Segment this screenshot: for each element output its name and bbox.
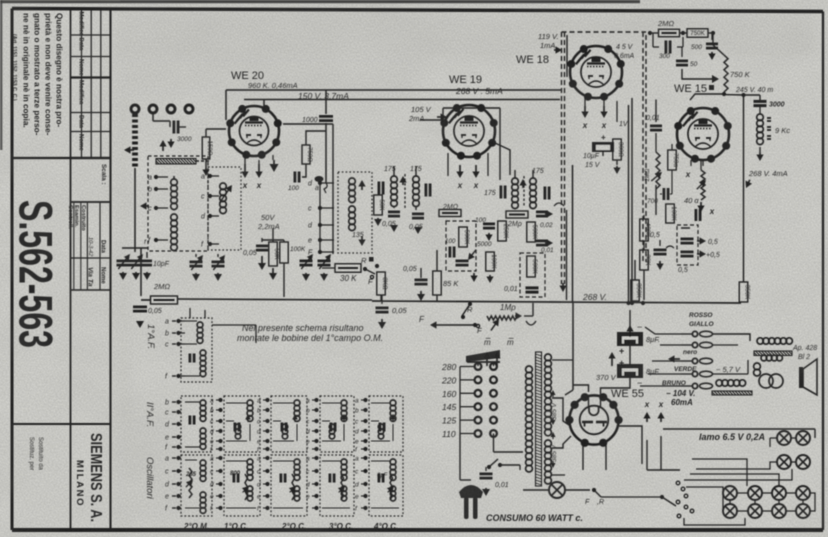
- svg-text:e: e: [210, 494, 214, 501]
- svg-text:e: e: [306, 494, 310, 501]
- svg-text:350K: 350K: [635, 283, 642, 298]
- svg-text:WE 18: WE 18: [516, 54, 549, 66]
- svg-text:300: 300: [659, 53, 670, 60]
- svg-text:8μF.: 8μF.: [646, 335, 660, 344]
- svg-text:(Art. 1151, 1152, 1153 C. C.): (Art. 1151, 1152, 1153 C. C.): [11, 34, 17, 101]
- svg-text:175: 175: [484, 190, 496, 197]
- svg-text:2MΩ: 2MΩ: [645, 168, 651, 181]
- svg-text:100: 100: [445, 238, 456, 245]
- svg-text:119 V.: 119 V.: [538, 32, 559, 41]
- svg-text:Modifica: Modifica: [77, 80, 83, 105]
- svg-text:−: −: [637, 322, 642, 332]
- svg-text:85 K: 85 K: [443, 279, 459, 288]
- svg-text:750K: 750K: [690, 30, 705, 37]
- svg-text:Questo disegno è nostra pr: Questo disegno è nostra pro-: [55, 13, 64, 127]
- svg-text:10pF: 10pF: [153, 261, 170, 268]
- svg-text:m̅: m̅: [484, 338, 491, 347]
- svg-text:3000: 3000: [177, 136, 192, 143]
- svg-text:500K: 500K: [463, 230, 470, 245]
- svg-text:800: 800: [230, 471, 241, 477]
- svg-text:2,2mA: 2,2mA: [257, 222, 280, 231]
- svg-text:x: x: [473, 181, 479, 190]
- svg-text:gnato o mostrato a terze perso: gnato o mostrato a terze perso-: [33, 13, 42, 136]
- svg-text:370 V: 370 V: [596, 373, 617, 382]
- svg-text:268 V. 4mA: 268 V. 4mA: [748, 169, 788, 178]
- svg-text:x: x: [644, 400, 650, 409]
- svg-text:R: R: [361, 256, 367, 265]
- svg-text:d: d: [210, 482, 214, 489]
- svg-text:Data: Data: [77, 115, 83, 129]
- svg-text:2°O.M.: 2°O.M.: [183, 522, 209, 531]
- svg-text:e: e: [257, 494, 261, 501]
- svg-text:lamo 6.5 V 0,2A: lamo 6.5 V 0,2A: [699, 432, 765, 442]
- svg-text:VERDE: VERDE: [674, 366, 697, 373]
- svg-text:Modifica: Modifica: [77, 12, 83, 37]
- svg-text:1mA: 1mA: [540, 41, 555, 50]
- svg-text:+0,5: +0,5: [706, 252, 720, 259]
- svg-text:x: x: [709, 207, 715, 216]
- svg-text:145: 145: [442, 402, 456, 412]
- svg-text:c: c: [165, 469, 169, 476]
- svg-text:a: a: [257, 456, 261, 463]
- svg-text:280: 280: [441, 362, 456, 372]
- svg-text:0,5: 0,5: [650, 232, 660, 239]
- svg-text:a: a: [165, 456, 169, 463]
- svg-text:d: d: [306, 482, 310, 489]
- svg-text:0,05: 0,05: [403, 266, 417, 273]
- svg-text:50K: 50K: [378, 199, 385, 211]
- svg-text:Ap. 428: Ap. 428: [792, 345, 817, 352]
- svg-text:MILANO: MILANO: [74, 460, 85, 507]
- svg-text:50V: 50V: [261, 213, 275, 222]
- svg-text:4°O.C.: 4°O.C.: [373, 522, 398, 531]
- svg-text:960 K. 0,46mA: 960 K. 0,46mA: [248, 81, 298, 90]
- svg-text:110: 110: [442, 429, 456, 439]
- svg-text:265: 265: [185, 472, 197, 478]
- svg-text:40 α: 40 α: [684, 196, 699, 205]
- svg-text:b: b: [210, 408, 214, 415]
- svg-text:Scala :: Scala :: [100, 164, 107, 185]
- svg-text:5000: 5000: [477, 241, 492, 248]
- svg-text:Sostituz. per: Sostituz. per: [28, 437, 34, 470]
- svg-text:100: 100: [288, 185, 299, 192]
- svg-text:− 104 V.: − 104 V.: [666, 389, 695, 398]
- svg-text:0,5: 0,5: [708, 239, 718, 246]
- svg-text:10-3-42: 10-3-42: [87, 237, 93, 257]
- svg-text:c: c: [148, 206, 152, 213]
- svg-text:2MΩ: 2MΩ: [657, 19, 674, 28]
- svg-text:a: a: [355, 456, 359, 463]
- svg-text:a: a: [165, 319, 169, 326]
- svg-text:+: +: [601, 133, 606, 142]
- svg-text:1V: 1V: [619, 121, 629, 128]
- svg-text:160: 160: [442, 389, 456, 399]
- svg-text:0,05: 0,05: [243, 250, 257, 257]
- svg-text:Controll.: Controll.: [67, 205, 73, 229]
- svg-text:b: b: [148, 187, 152, 194]
- svg-text:385 V: 385 V: [551, 444, 558, 462]
- svg-text:c: c: [165, 342, 169, 349]
- svg-text:montate le bobine del 1°ca: montate le bobine del 1°campo O.M.: [237, 333, 383, 343]
- svg-text:WE 19: WE 19: [449, 74, 482, 86]
- svg-text:WE 55: WE 55: [611, 388, 644, 400]
- svg-text:Oscillatori: Oscillatori: [144, 457, 155, 500]
- svg-text:175: 175: [532, 168, 544, 175]
- svg-text:8μF.: 8μF.: [646, 367, 660, 376]
- svg-text:1Mρ: 1Mρ: [500, 303, 516, 312]
- svg-text:268 V.: 268 V.: [582, 292, 607, 302]
- svg-text:0,01: 0,01: [504, 286, 518, 293]
- svg-text:245 V. 40 m: 245 V. 40 m: [735, 87, 773, 94]
- svg-text:d: d: [257, 482, 261, 489]
- svg-text:8KΩ: 8KΩ: [381, 277, 388, 290]
- svg-text:500: 500: [691, 44, 702, 51]
- svg-text:e: e: [306, 439, 310, 446]
- svg-text:750Ω: 750Ω: [306, 147, 313, 162]
- svg-text:a: a: [355, 398, 359, 405]
- svg-text:a: a: [210, 398, 214, 405]
- svg-text:750 K: 750 K: [730, 70, 751, 79]
- svg-text:a: a: [257, 398, 261, 405]
- svg-text:15 V: 15 V: [585, 162, 601, 169]
- svg-text:b: b: [165, 331, 169, 338]
- svg-text:x: x: [658, 400, 664, 409]
- svg-text:Nome: Nome: [100, 267, 106, 284]
- svg-text:100K: 100K: [290, 246, 306, 253]
- svg-text:1000: 1000: [302, 117, 318, 124]
- svg-text:prietà e non deve venire conse: prietà e non deve venire conse-: [44, 13, 53, 136]
- svg-text:e: e: [355, 439, 359, 446]
- svg-text:ROSSO: ROSSO: [689, 312, 712, 319]
- svg-text:a: a: [210, 456, 214, 463]
- svg-text:e: e: [308, 238, 312, 245]
- svg-text:220: 220: [441, 375, 456, 385]
- svg-text:x: x: [242, 181, 248, 190]
- svg-text:Nome: Nome: [77, 59, 83, 76]
- svg-text:ne nè in originale nè in: ne nè in originale nè in copia.: [22, 13, 31, 128]
- svg-text:+: +: [619, 346, 624, 356]
- svg-text:1°O.C.: 1°O.C.: [224, 522, 248, 531]
- svg-text:30 K: 30 K: [340, 274, 357, 283]
- svg-text:a: a: [148, 175, 152, 182]
- svg-text:b: b: [165, 400, 169, 407]
- svg-text:2°O.C.: 2°O.C.: [281, 522, 306, 531]
- svg-text:2Mρ: 2Mρ: [507, 221, 522, 228]
- svg-text:x: x: [256, 181, 262, 190]
- svg-text:700: 700: [647, 198, 658, 205]
- svg-text:a: a: [306, 398, 310, 405]
- svg-text:b: b: [257, 408, 261, 415]
- svg-text:c: c: [308, 206, 312, 213]
- svg-text:m̅: m̅: [507, 338, 514, 347]
- svg-text:2MΩ: 2MΩ: [153, 282, 170, 291]
- svg-text:268 V . 5mA: 268 V . 5mA: [455, 86, 503, 96]
- svg-text:6pF: 6pF: [377, 473, 388, 479]
- svg-text:125: 125: [442, 416, 456, 426]
- svg-text:d: d: [257, 429, 261, 436]
- svg-text:II°A.F.: II°A.F.: [144, 402, 155, 427]
- svg-text:Nome: Nome: [77, 134, 83, 151]
- svg-text:0,05: 0,05: [148, 308, 162, 315]
- svg-text:Sostituito da: Sostituito da: [37, 437, 43, 471]
- svg-text:,R: ,R: [597, 499, 604, 506]
- svg-text:3°O.C.: 3°O.C.: [329, 522, 353, 531]
- svg-text:a: a: [201, 174, 205, 181]
- svg-text:385 V: 385 V: [551, 402, 558, 420]
- svg-text:2mA: 2mA: [408, 114, 424, 123]
- svg-text:300Ω: 300Ω: [617, 142, 624, 157]
- svg-text:350K: 350K: [744, 285, 751, 300]
- svg-text:Data: Data: [100, 240, 106, 254]
- svg-text:500K: 500K: [531, 225, 538, 240]
- svg-text:0,5: 0,5: [678, 267, 688, 274]
- svg-text:c: c: [165, 410, 169, 417]
- svg-text:b: b: [355, 408, 359, 415]
- svg-text:CONSUMO 60 WATT c.: CONSUMO 60 WATT c.: [486, 513, 583, 523]
- svg-text:0,6mA: 0,6mA: [614, 53, 635, 60]
- svg-text:60mA: 60mA: [671, 398, 693, 407]
- svg-text:F: F: [585, 499, 590, 506]
- svg-text:d: d: [355, 482, 359, 489]
- svg-text:x: x: [601, 121, 607, 130]
- svg-text:Via Ta: Via Ta: [87, 267, 94, 287]
- svg-text:b: b: [306, 408, 310, 415]
- svg-text:a: a: [315, 185, 319, 192]
- svg-text:WE 15: WE 15: [674, 83, 707, 95]
- svg-text:1°A.F.: 1°A.F.: [145, 324, 156, 349]
- svg-text:e: e: [257, 439, 261, 446]
- svg-text:105 V: 105 V: [411, 105, 432, 114]
- svg-text:c: c: [201, 194, 205, 201]
- svg-text:4 5 V: 4 5 V: [616, 44, 634, 51]
- svg-text:Esamin.: Esamin.: [73, 205, 79, 228]
- svg-text:a: a: [306, 456, 310, 463]
- svg-text:0,02: 0,02: [540, 222, 553, 229]
- svg-text:100K: 100K: [670, 206, 677, 221]
- svg-text:e: e: [210, 439, 214, 446]
- svg-text:+: +: [619, 358, 624, 368]
- svg-text:0,01: 0,01: [646, 115, 660, 122]
- svg-text:0,05: 0,05: [392, 306, 407, 315]
- svg-text:500K: 500K: [531, 259, 538, 274]
- svg-text:50: 50: [690, 61, 698, 68]
- svg-text:x: x: [582, 121, 588, 130]
- svg-text:30K: 30K: [644, 254, 651, 266]
- svg-text:Data: Data: [77, 38, 83, 52]
- svg-text:0,01: 0,01: [495, 482, 509, 489]
- svg-text:150Ω: 150Ω: [206, 141, 213, 156]
- svg-text:x: x: [685, 170, 691, 179]
- svg-text:− 5,7 V: − 5,7 V: [716, 365, 741, 374]
- svg-text:e: e: [355, 494, 359, 501]
- svg-text:Bl 2: Bl 2: [798, 354, 810, 361]
- svg-text:x: x: [457, 181, 463, 190]
- svg-text:9 Kc: 9 Kc: [775, 126, 790, 135]
- svg-text:10μF: 10μF: [583, 153, 600, 160]
- svg-text:S.562-563: S.562-563: [10, 200, 63, 348]
- svg-text:Costruito: Costruito: [80, 205, 86, 231]
- svg-text:3000: 3000: [769, 102, 785, 109]
- svg-text:d: d: [306, 429, 310, 436]
- svg-text:SIEMENS S. A.: SIEMENS S. A.: [87, 433, 104, 522]
- svg-text:e: e: [165, 435, 169, 442]
- svg-text:GIALLO: GIALLO: [689, 321, 714, 328]
- svg-text:e: e: [165, 494, 169, 501]
- svg-text:100K: 100K: [490, 254, 497, 269]
- svg-text:750α: 750α: [672, 153, 679, 167]
- svg-text:d: d: [355, 429, 359, 436]
- svg-text:nero: nero: [683, 349, 697, 356]
- svg-text:d: d: [210, 429, 214, 436]
- svg-text:Nel presente schema risulta: Nel presente schema risultano: [242, 323, 364, 333]
